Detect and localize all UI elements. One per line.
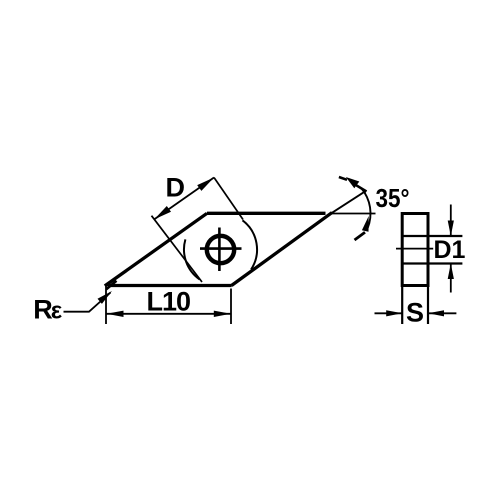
- angle 35deg: lower arrowhead: [362, 216, 369, 232]
- side view: hole top silhouette line: [402, 235, 462, 237]
- dimension L10: left arrowhead: [107, 311, 124, 317]
- corner radius R-epsilon: leader arrowhead: [98, 291, 113, 304]
- dimension D1: lower arrow line: [450, 264, 452, 293]
- svg-text:D1: D1: [434, 236, 466, 264]
- angle 35deg: dimension arc: [361, 188, 370, 228]
- center hole: [207, 236, 234, 263]
- dimension S: right arrowhead: [428, 310, 444, 316]
- dimension D1: upper arrow line: [450, 205, 452, 237]
- hole crosshair centerlines: [200, 228, 242, 272]
- inscribed-circle arc, right side: [243, 220, 258, 269]
- dimension L10: left extension line: [105, 286, 107, 325]
- dimension L10: right arrowhead: [214, 311, 231, 317]
- insert body (35deg rhombic insert, face view): [105, 213, 332, 286]
- horizontal extension of top edge beyond right tip: [331, 213, 376, 215]
- dimension D: upper arrowhead: [197, 178, 214, 191]
- svg-text:Rε: Rε: [33, 294, 62, 324]
- side view: hole bottom silhouette line: [402, 262, 462, 264]
- side view: hole centerline: [396, 248, 433, 250]
- dimension D: dimension line: [154, 178, 214, 220]
- dimension L10: right extension line: [230, 289, 232, 325]
- dimension D1: lower arrowhead: [448, 264, 454, 280]
- angle 35deg: upper arrowhead: [346, 177, 360, 188]
- corner radius R-epsilon: leader line: [64, 293, 111, 312]
- inscribed-circle arc, left side: [184, 239, 200, 279]
- angle 35deg: upper arrow stem: [356, 185, 367, 192]
- svg-text:L10: L10: [147, 287, 191, 317]
- dimension S: right arrow line: [428, 312, 456, 314]
- dimension S: left arrow line: [375, 312, 403, 314]
- dimension S: left arrowhead: [386, 310, 402, 316]
- dimension S: left extension line: [401, 286, 403, 325]
- dimension L10: dimension line: [106, 313, 231, 315]
- svg-text:S: S: [406, 298, 424, 328]
- dimension S: right extension line: [427, 286, 429, 325]
- dimension D: lower extension line: [152, 216, 203, 282]
- dimension D1: upper arrowhead: [448, 221, 454, 237]
- svg-text:D: D: [166, 173, 186, 203]
- angle 35deg: lower arrow tail: [355, 232, 366, 240]
- dimension D: lower arrowhead: [154, 206, 171, 219]
- corner radius R-epsilon: corner radius tick: [106, 281, 116, 289]
- extension of lower edge beyond right tip (35deg ray): [331, 191, 366, 214]
- svg-text:35°: 35°: [376, 183, 410, 213]
- angle 35deg: upper arrow tail: [339, 177, 347, 180]
- dimension D: upper extension line: [214, 178, 243, 220]
- side view: body outline: [402, 214, 428, 286]
